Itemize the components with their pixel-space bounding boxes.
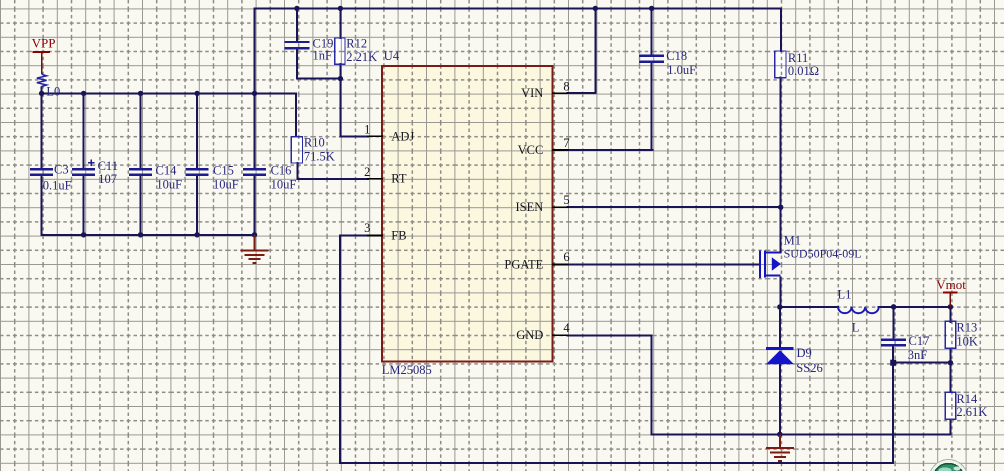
- wire ADJ riser to R12/C19 junction: [339, 79, 341, 137]
- svg-text:RT: RT: [391, 172, 407, 186]
- wire FB run: [340, 235, 368, 237]
- svg-text:107: 107: [98, 172, 117, 186]
- node cap bottom rail / C11: [81, 232, 86, 237]
- power port VPP stem: [41, 52, 43, 74]
- node VPP rail / C15: [194, 91, 199, 96]
- svg-text:SS26: SS26: [796, 361, 822, 375]
- svg-text:M1: M1: [784, 233, 801, 247]
- op-amp/regulator U4 body fill (grid shows through): [382, 66, 553, 362]
- svg-text:FB: FB: [391, 229, 406, 243]
- wire C16 column top: [254, 93, 256, 168]
- svg-text:VCC: VCC: [518, 143, 544, 157]
- wire D9 top from switch node: [779, 307, 781, 348]
- pin 6 PGATE stub: [553, 263, 568, 265]
- capacitor C15 plates: [186, 169, 209, 175]
- node top rail / C19: [294, 6, 299, 11]
- wire Vmot node to R13: [949, 307, 951, 322]
- wire C19 top: [296, 8, 298, 41]
- inductor L0 zigzag: [37, 74, 47, 87]
- svg-text:2.61K: 2.61K: [956, 405, 987, 419]
- capacitor C11 plus sign: [88, 160, 94, 166]
- wire C11 column top: [83, 93, 85, 168]
- wire FB drop right: [892, 363, 894, 464]
- capacitor C19 plates: [285, 42, 310, 48]
- svg-text:R13: R13: [956, 320, 977, 334]
- svg-text:0.01Ω: 0.01Ω: [788, 64, 819, 78]
- svg-text:8: 8: [563, 79, 569, 93]
- wire VPP rail: [42, 92, 296, 94]
- node R13 / R14 divider: [948, 360, 953, 365]
- logo sphere bottom right: [929, 460, 968, 471]
- node VPP rail / C11: [81, 91, 86, 96]
- PINS (black stubs): [368, 93, 568, 335]
- node top rail / C18: [649, 6, 654, 11]
- svg-text:7: 7: [563, 136, 569, 150]
- svg-text:C16: C16: [271, 163, 292, 177]
- wire capacitor bottom rail: [42, 234, 255, 236]
- svg-text:C17: C17: [909, 334, 930, 348]
- wire R10 top drop: [295, 93, 297, 136]
- node ADJ / R12 / C19: [338, 76, 343, 81]
- node C17 bottom / FB (square): [890, 360, 896, 366]
- node VPP rail / C14: [138, 91, 143, 96]
- power port Vmot stem: [949, 292, 951, 306]
- pin 1 ADJ stub: [368, 135, 382, 137]
- wire R14 top: [949, 363, 951, 392]
- wire divider row 3nF junction to R13/R14 junction: [893, 362, 950, 364]
- resistor body fills: [335, 38, 345, 64]
- svg-text:R10: R10: [304, 135, 325, 149]
- resistor R13 outline: [945, 321, 956, 348]
- wire PGATE run: [568, 263, 759, 265]
- pin 4 GND stub: [553, 334, 568, 336]
- wire R12 bottom: [339, 64, 341, 79]
- node cap bottom rail / C14: [138, 232, 143, 237]
- pin 3 FB stub: [368, 235, 382, 237]
- svg-text:71.5K: 71.5K: [304, 149, 335, 163]
- wire ISEN run: [568, 206, 781, 208]
- svg-text:Vmot: Vmot: [936, 277, 966, 292]
- wire C15 column bottom: [196, 176, 198, 234]
- svg-text:10uF: 10uF: [156, 178, 182, 192]
- capacitor C14 plates: [129, 169, 152, 175]
- node Vmot / R13: [948, 304, 953, 309]
- diode D9 cathode bar: [766, 347, 794, 350]
- inductor L1 arcs: [838, 307, 879, 313]
- svg-text:0.1uF: 0.1uF: [43, 179, 72, 193]
- wire C3 column bottom: [41, 176, 43, 234]
- capacitor C3 plates: [30, 169, 53, 175]
- wire R13 bottom: [949, 350, 951, 363]
- pin 2 RT stub: [368, 178, 382, 180]
- svg-text:10K: 10K: [956, 335, 978, 349]
- node ground rail / D9 / earth: [777, 432, 782, 437]
- node cap bottom rail / C16 / earth: [252, 232, 257, 237]
- capacitor C17 plates: [881, 340, 906, 345]
- wire GND pin4 elbow: [568, 335, 652, 434]
- wire C18 drop: [651, 8, 653, 55]
- ground (earth) left below C16: [241, 235, 269, 263]
- svg-text:C14: C14: [156, 163, 178, 177]
- wire C3 column top: [41, 93, 43, 168]
- wire R10 bottom elbow to RT: [297, 163, 368, 179]
- svg-text:1nF: 1nF: [313, 49, 333, 63]
- pin 7 VCC stub: [553, 149, 568, 151]
- wire L1 to Vmot node: [879, 306, 951, 308]
- wire L0 to VPP rail: [41, 88, 43, 94]
- svg-text:C18: C18: [666, 49, 687, 63]
- svg-text:U4: U4: [384, 49, 400, 63]
- COMPONENT SYMBOLS: [30, 42, 906, 345]
- wire C17 top: [893, 307, 895, 339]
- svg-text:C3: C3: [54, 162, 69, 176]
- svg-text:L: L: [852, 321, 860, 335]
- svg-text:1: 1: [364, 122, 370, 136]
- wire C16 column bottom: [254, 176, 256, 234]
- wire C19 bottom elbow: [297, 49, 341, 79]
- diode D9 triangle: [766, 350, 794, 364]
- svg-text:C15: C15: [213, 163, 234, 177]
- wire R11 bottom to ISEN: [780, 78, 782, 208]
- resistor R12 outline: [335, 38, 345, 64]
- svg-text:4: 4: [563, 321, 570, 335]
- svg-text:L0: L0: [46, 85, 60, 99]
- capacitor C16 plates: [243, 169, 266, 175]
- wire C17 bottom: [892, 346, 894, 363]
- wire R14 bottom: [949, 419, 951, 434]
- pin 8 VIN stub: [553, 92, 568, 94]
- capacitor C11 plates: [72, 169, 95, 175]
- svg-text:LM25085: LM25085: [382, 363, 432, 377]
- wire R12 top: [339, 8, 341, 38]
- svg-text:5: 5: [563, 193, 569, 207]
- resistor R10 outline: [291, 137, 302, 163]
- wire VCC pin7 run: [568, 149, 653, 151]
- PIN NAMES AND NUMBERS: [364, 79, 570, 342]
- ground (earth) right below D9: [766, 434, 794, 461]
- node switch: MOSFET / D9 / L1: [777, 304, 782, 309]
- wire ISEN to MOSFET top: [780, 207, 782, 252]
- resistor R14 outline: [945, 392, 956, 419]
- svg-text:PGATE: PGATE: [504, 257, 543, 271]
- svg-text:VPP: VPP: [32, 36, 56, 51]
- node ISEN / R11: [778, 205, 783, 210]
- wire switch node to L1: [780, 306, 838, 308]
- svg-text:2.21K: 2.21K: [346, 50, 377, 64]
- resistor R11 outline: [775, 51, 786, 78]
- wire D9 bottom to ground rail: [779, 364, 781, 434]
- power port Vmot bar: [943, 291, 957, 293]
- node L1 / C17: [891, 304, 896, 309]
- U4 regulator body outline: [382, 66, 553, 362]
- power port VPP bar: [33, 51, 50, 53]
- wire bottom FB run: [340, 462, 893, 464]
- svg-text:3: 3: [364, 221, 370, 235]
- svg-text:ADJ: ADJ: [391, 129, 414, 143]
- capacitor C18 plates: [639, 56, 664, 62]
- svg-text:6: 6: [563, 250, 569, 264]
- wire C15 column top: [196, 93, 198, 168]
- svg-text:3nF: 3nF: [908, 348, 928, 362]
- svg-text:L1: L1: [838, 288, 852, 302]
- node top rail / VIN riser: [593, 6, 598, 11]
- wire VIN pin8 run: [568, 92, 596, 94]
- svg-text:10uF: 10uF: [213, 178, 239, 192]
- svg-text:SUD50P04-09L: SUD50P04-09L: [784, 247, 862, 261]
- wire top rail: [255, 7, 782, 9]
- svg-text:D9: D9: [797, 346, 812, 360]
- svg-text:R12: R12: [346, 37, 367, 51]
- svg-text:ISEN: ISEN: [516, 200, 544, 214]
- wire MOSFET bottom to switch node: [780, 277, 782, 307]
- wire C18 bottom to VCC: [651, 62, 653, 150]
- wire FB vertical left: [339, 236, 341, 464]
- wire ADJ run: [340, 135, 368, 137]
- node cap bottom rail / C15: [194, 232, 199, 237]
- wire VIN riser: [594, 8, 596, 93]
- wire right drop to R11: [780, 8, 782, 51]
- svg-text:10uF: 10uF: [271, 178, 297, 192]
- svg-text:1.0uF: 1.0uF: [667, 63, 696, 77]
- svg-text:VIN: VIN: [521, 86, 543, 100]
- wire ground rail bottom right: [652, 433, 951, 435]
- wire C14 column bottom: [140, 176, 142, 234]
- node top rail / R12: [338, 6, 343, 11]
- transistor M1 (P-MOSFET): [760, 251, 781, 279]
- node L0 / VPP rail: [39, 91, 44, 96]
- svg-text:2: 2: [364, 165, 370, 179]
- pin 5 ISEN stub: [553, 206, 568, 208]
- wire left drop from top rail to VPP rail (C16 column): [254, 8, 256, 93]
- transistor M1 arrow: [772, 257, 781, 271]
- node VPP rail / C16: [252, 91, 257, 96]
- wire C14 column top: [140, 93, 142, 168]
- wire C11 column bottom: [83, 176, 85, 234]
- svg-text:GND: GND: [516, 328, 543, 342]
- svg-text:R14: R14: [956, 392, 978, 406]
